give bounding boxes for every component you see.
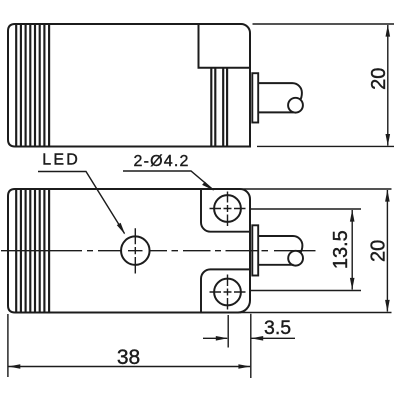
dimension 20 (side view) extension lines xyxy=(253,24,395,146)
ribbed cap lines (side view) xyxy=(16,24,49,147)
label 2-Ø4.2 leader arrowhead xyxy=(202,182,214,191)
dimension 13.5 extension lines xyxy=(250,209,362,291)
dimension 38 arrowheads xyxy=(8,364,20,369)
horizontal centerline (plan view) xyxy=(1,250,316,252)
body outline (plan view) xyxy=(8,189,250,313)
dimension 20 (side view) arrowheads xyxy=(386,25,391,37)
LED indicator circle xyxy=(121,236,150,265)
mounting hole bottom (Ø4.2) xyxy=(214,279,241,306)
plug base tab (side view) xyxy=(252,73,258,122)
dimension 38 extension line left xyxy=(7,314,9,377)
plug ball end (plan view) xyxy=(288,251,303,266)
svg-text:20: 20 xyxy=(367,240,389,262)
ribbed cap lines (plan view) xyxy=(16,189,49,313)
connector block (side view) xyxy=(199,24,251,68)
svg-text:3.5: 3.5 xyxy=(264,317,291,339)
plug body (plan view) xyxy=(258,236,302,253)
top mounting ear slot line xyxy=(201,189,250,232)
dimension 3.5 dimension lines xyxy=(203,337,295,339)
plug bottom line (side view) xyxy=(258,111,293,113)
svg-text:2-Ø4.2: 2-Ø4.2 xyxy=(134,153,190,170)
dimension 20 (side view) dimension line xyxy=(387,25,389,146)
body outline (side view) xyxy=(8,24,250,147)
label 2-Ø4.2 leader line xyxy=(123,171,214,190)
svg-text:20: 20 xyxy=(368,68,390,90)
dimension 3.5 extension lines xyxy=(228,314,251,378)
dimension 20 (plan view) arrowheads xyxy=(385,190,390,202)
dimension 20 (plan view) extension lines xyxy=(241,189,392,313)
plug body (side view) xyxy=(258,83,302,100)
bottom mounting ear slot line xyxy=(201,269,250,312)
svg-text:LED: LED xyxy=(42,152,80,169)
svg-text:13.5: 13.5 xyxy=(330,230,352,269)
dimension 3.5 arrowheads xyxy=(216,336,228,341)
mounting hole top centerline cross xyxy=(210,192,246,227)
LED circle vertical centerline xyxy=(134,228,136,273)
svg-text:38: 38 xyxy=(117,346,140,369)
dimension 13.5 dimension line xyxy=(351,210,353,290)
label LED leader line xyxy=(38,172,125,234)
dimension 13.5 arrowheads xyxy=(350,210,355,222)
block rib lines (side view) xyxy=(211,68,227,147)
mounting hole bottom centerline cross xyxy=(210,275,246,310)
plug bottom line (plan view) xyxy=(258,264,293,266)
mounting hole top (Ø4.2) xyxy=(214,195,241,222)
plug base tab (plan view) xyxy=(252,225,258,275)
plug ball end (side view) xyxy=(288,98,303,113)
dimension 38 dimension line xyxy=(9,366,251,368)
dimension 20 (plan view) dimension line xyxy=(386,190,388,312)
label LED leader arrowhead xyxy=(117,223,125,235)
